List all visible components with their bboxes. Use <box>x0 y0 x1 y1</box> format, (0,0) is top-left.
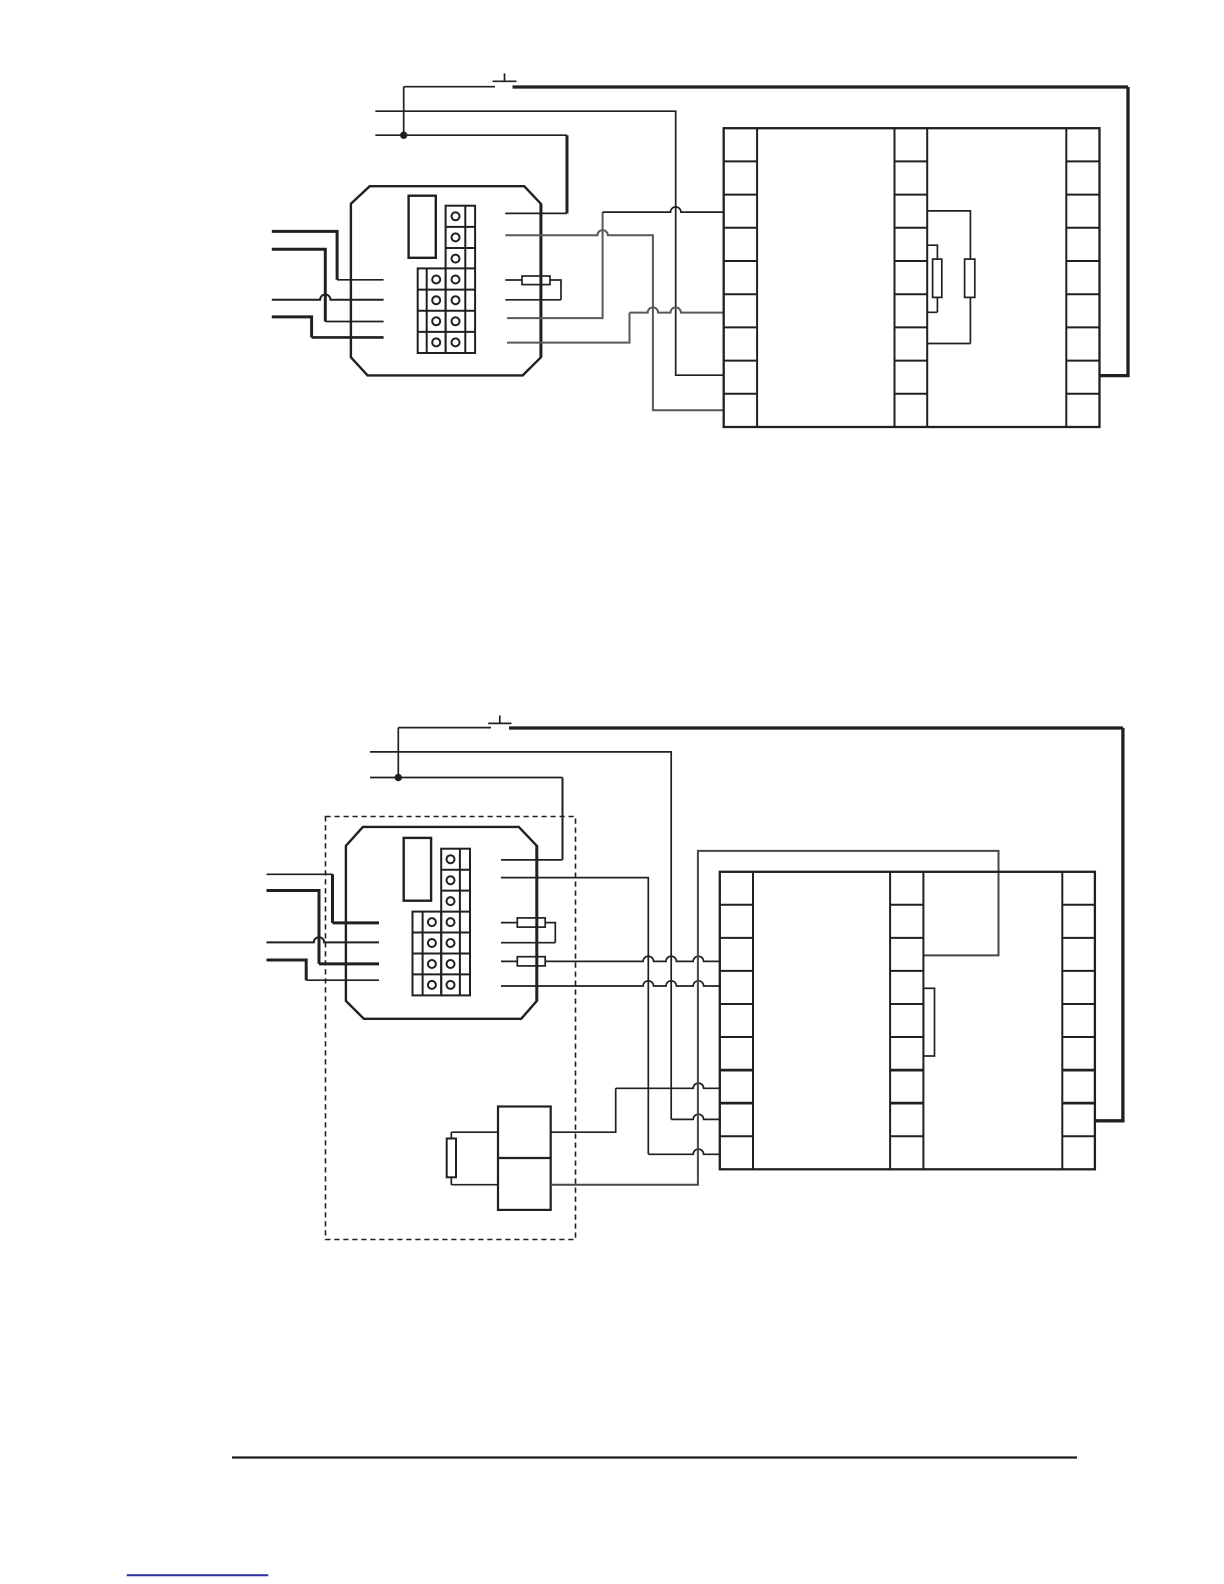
stub to rail3 <box>505 212 567 214</box>
net box run to c7 with hop <box>616 1083 720 1088</box>
wire input B <box>272 249 326 321</box>
wire input D stub <box>312 336 384 339</box>
resistor R2 top lead <box>927 211 970 259</box>
footer separator rule <box>232 1456 1077 1458</box>
wire input D <box>272 317 312 338</box>
wire input D stub <box>306 979 379 981</box>
resistor R3 lead <box>505 279 522 281</box>
middle terminal strip dividers <box>890 905 923 1136</box>
resistor R1 <box>933 259 942 297</box>
resistor RC bottom lead <box>451 1177 498 1184</box>
wire input A <box>267 873 333 875</box>
wire rail3 <box>370 777 563 779</box>
wire rail2 <box>370 752 671 1120</box>
wire rail1 left thin segment <box>398 727 491 729</box>
wire rail1 bold segment <box>513 85 1129 88</box>
wire input C with hop <box>267 937 380 942</box>
stub RA return <box>501 942 555 944</box>
wire input A stub <box>337 279 384 281</box>
wire rail3 drop to thermostat stub <box>566 135 569 213</box>
left strip bold dividers <box>720 1070 753 1103</box>
thermostat left terminal block <box>418 268 446 353</box>
wire input B stub <box>325 321 383 323</box>
relay module outer box <box>720 872 1095 1170</box>
thermostat display rectangle <box>409 196 436 258</box>
wire rail1 right drop to module right terminal <box>1100 87 1129 376</box>
resistor RB <box>517 957 545 966</box>
net B run to left terminal c9 with hop <box>648 1149 720 1154</box>
net N4 gray wire up <box>507 212 603 318</box>
stub lower resistor return <box>505 299 561 301</box>
stub net B right <box>501 878 648 1155</box>
junction dot <box>395 774 402 781</box>
right terminal strip dividers <box>1066 161 1099 393</box>
thermostat outline (octagon) <box>351 186 541 375</box>
resistor R2 bottom lead <box>927 297 970 343</box>
resistor R3 loop wire <box>550 280 561 300</box>
thermostat outline (octagon) <box>346 827 537 1019</box>
middle terminal strip dividers <box>895 161 928 393</box>
net RB run to left terminal c3 with hops <box>545 956 720 961</box>
wire rail1 left thin segment <box>404 86 495 88</box>
resistor RB lead <box>501 960 517 962</box>
net N5 gray run to module terminal c6 with hops <box>630 307 724 312</box>
module inner verticals <box>753 872 1062 1170</box>
resistor R1 bottom lead <box>927 297 937 312</box>
wire rail3 drop <box>562 778 564 860</box>
right terminal strip dividers <box>1062 905 1095 1136</box>
wire input C with hop <box>272 295 384 300</box>
dashed enclosure box <box>326 817 576 1240</box>
resistor R3 <box>522 276 550 285</box>
thermostat right edge bold <box>539 204 542 357</box>
left terminal strip dividers <box>724 161 757 393</box>
net stub to left terminal c4 with hops <box>501 981 720 986</box>
resistor RC top lead <box>451 1132 498 1138</box>
net N5 gray wire up <box>507 313 630 343</box>
wire rail1 left drop to junction <box>397 728 399 778</box>
thermostat display rectangle <box>404 838 431 901</box>
wire rail2 run to left terminal c8 with hop <box>671 1114 720 1119</box>
wire input D <box>267 960 307 980</box>
resistor RA lead <box>501 922 517 924</box>
net N4 black run to module terminal c3 with hop <box>603 207 724 212</box>
wire input B <box>267 891 380 964</box>
stub to rail3 <box>501 859 563 861</box>
remote device box <box>498 1107 551 1210</box>
wire input A drop and stub <box>333 874 380 923</box>
net N2 gray wire to module terminal c9 <box>505 230 723 410</box>
wire rail1 right drop to module right terminal <box>1095 728 1123 1121</box>
wire rail1 bold segment <box>509 726 1123 729</box>
switch S1 <box>493 73 517 81</box>
wire input A <box>272 231 337 279</box>
resistor R2 <box>965 259 975 297</box>
left terminal strip dividers <box>720 905 753 1136</box>
resistor R1 top lead <box>927 245 937 259</box>
module inner verticals <box>757 128 1066 427</box>
switch S2 <box>488 716 511 724</box>
wire rail3 <box>375 134 567 136</box>
net loop middle terminal to box (gray) <box>551 851 999 1185</box>
wire rail1 left drop to junction <box>403 87 405 136</box>
remote device box divider <box>498 1157 551 1159</box>
thermostat right terminal strip <box>441 849 470 996</box>
footer link underline (blue) <box>127 1574 268 1576</box>
junction dot <box>400 132 407 139</box>
thermostat right terminal strip <box>446 206 476 353</box>
resistor RD on middle strip <box>923 988 934 1056</box>
right strip bold dividers <box>1062 1070 1095 1103</box>
relay module outer box <box>724 128 1100 427</box>
wire rail2 <box>375 111 723 375</box>
resistor RA <box>517 918 545 927</box>
net box to left terminal c7 <box>551 1088 616 1132</box>
middle strip bold dividers <box>890 1070 923 1103</box>
thermostat right edge bold <box>535 846 538 1001</box>
resistor RC <box>447 1139 456 1178</box>
resistor RA loop wire <box>545 923 555 943</box>
thermostat left terminal block <box>413 912 442 996</box>
